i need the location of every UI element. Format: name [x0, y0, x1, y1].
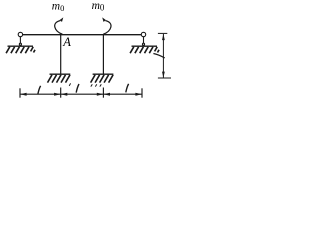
bottom dimension arrows	[20, 93, 142, 96]
right moment arc m0	[103, 21, 111, 35]
svg-text:A: A	[62, 35, 71, 49]
right vertical dimension line	[162, 34, 164, 78]
dimension label l vertical	[153, 54, 164, 58]
dimension label l segment1	[38, 86, 41, 95]
dimension label l segment2	[76, 84, 79, 93]
right vertical dimension up arrow	[162, 34, 165, 40]
dimension label l segment3	[126, 84, 129, 93]
column 2 base hatching	[91, 75, 114, 87]
right vertical dimension top tick	[158, 32, 167, 34]
column 1	[60, 35, 62, 74]
bottom dimension tick left	[19, 88, 21, 97]
left support ground line	[8, 45, 34, 47]
column 2 fixed base cap	[93, 73, 114, 75]
column 1 fixed base cap	[50, 73, 71, 75]
column 2	[102, 35, 104, 74]
right support hatching	[130, 47, 159, 53]
svg-text:m0: m0	[52, 1, 65, 14]
right pin support hinge circle	[141, 32, 145, 36]
left moment arrowhead	[60, 17, 64, 22]
column 1 base hatching	[48, 75, 71, 86]
left support hatching	[6, 47, 35, 53]
left pin support hinge circle	[18, 32, 22, 36]
bottom dimension line	[20, 93, 142, 95]
left pin support base pivot	[19, 43, 22, 46]
bottom dimension tick right	[141, 88, 143, 97]
left moment arc m0	[55, 21, 63, 35]
beam (horizontal member)	[22, 34, 141, 36]
bottom dimension tick mid1	[60, 88, 62, 98]
right vertical dimension down arrow	[162, 72, 165, 78]
right pin support base pivot	[142, 43, 145, 46]
right support ground line	[132, 45, 158, 47]
svg-text:m0: m0	[92, 0, 105, 12]
bottom dimension tick mid2	[102, 88, 104, 98]
left pin support link	[19, 37, 21, 44]
background	[0, 0, 174, 110]
right pin support link	[143, 37, 145, 44]
right moment arrowhead	[102, 17, 106, 22]
right vertical dimension bottom tick	[158, 77, 171, 79]
